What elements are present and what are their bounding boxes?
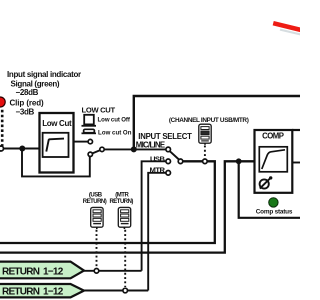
wire: usb return feed [142, 161, 166, 270]
svg-text:LOW CUT: LOW CUT [82, 106, 116, 115]
tag: USB RETURN 1-12 arrow [0, 262, 84, 279]
icon: low cut on switch [84, 129, 95, 132]
svg-text:Low Cut: Low Cut [42, 119, 72, 128]
node: usb return contact [94, 269, 99, 274]
icon: usb return switch [91, 207, 103, 229]
wire: low cut bypass path [22, 149, 90, 177]
wire: comp feed to bus2 [0, 161, 255, 252]
knob: comp amount [260, 179, 269, 188]
block: COMP [255, 130, 293, 193]
svg-text:Signal (green): Signal (green) [11, 79, 60, 88]
node: mic/line contact [166, 147, 171, 152]
tag: MTR RETURN 1-12 arrow [0, 284, 84, 297]
icon: mtr return switch [118, 207, 130, 229]
node: usb contact [166, 159, 171, 164]
wire: pole to bus1 [0, 161, 215, 243]
curve: compressor response [262, 150, 285, 169]
svg-text:(MTR: (MTR [115, 193, 129, 199]
svg-text:RETURN): RETURN) [83, 199, 107, 205]
lever: low cut switch [92, 150, 100, 153]
svg-text:Low cut Off: Low cut Off [98, 117, 131, 124]
wire: low cut pole to mic/line node [104, 148, 168, 150]
dotted link: mtr return switch to contact [124, 230, 126, 287]
lever: input select switch [170, 151, 179, 159]
node: mtr return contact [123, 288, 128, 293]
LED: clip indicator (red) [0, 97, 5, 107]
red annotation arrow shadow [280, 30, 302, 35]
dotted link: channel input switch to contact [204, 146, 206, 159]
wire: channel frame riser and top rail [134, 96, 300, 149]
wire: comp top rail extension [292, 129, 300, 131]
node: channel input contact [203, 159, 208, 164]
svg-text:Comp status: Comp status [256, 209, 293, 216]
svg-text:COMP: COMP [262, 132, 284, 141]
node: low cut bypass contact [88, 152, 92, 156]
svg-text:RETURN 1−12: RETURN 1−12 [2, 287, 64, 298]
curve: high-pass response [46, 139, 64, 152]
wire: mtr return line [84, 290, 148, 292]
junction: mic/line node [131, 146, 137, 152]
svg-text:RETURN 1−12: RETURN 1−12 [2, 267, 64, 278]
svg-text:(USB: (USB [89, 193, 103, 199]
svg-text:(CHANNEL INPUT USB/MTR): (CHANNEL INPUT USB/MTR) [169, 117, 249, 124]
svg-text:−3dB: −3dB [16, 108, 35, 117]
LED: comp status (green) [269, 198, 278, 207]
junction: input split [19, 146, 25, 152]
block: Low Cut [40, 113, 74, 173]
node: channel input contact [0, 146, 4, 151]
svg-text:Input signal indicator: Input signal indicator [7, 70, 81, 79]
wire: mtr return feed [148, 173, 166, 291]
svg-text:Clip (red): Clip (red) [10, 99, 45, 108]
dashed link: clip LED to input wire [1, 110, 4, 146]
icon: channel input switch [199, 124, 211, 145]
node: mtr contact [166, 171, 171, 176]
wire: comp output stub [292, 162, 300, 164]
wire: low cut output [74, 141, 89, 143]
node: input select pole [178, 159, 183, 164]
wire: input to low cut block [4, 148, 40, 150]
svg-text:−28dB: −28dB [16, 88, 39, 97]
dotted link: usb return switch to contact [96, 230, 98, 268]
red annotation arrow tail [273, 23, 302, 30]
node: low cut switch pole [100, 147, 104, 151]
svg-text:RETURN): RETURN) [109, 199, 133, 205]
node: low cut out contact [88, 139, 92, 143]
svg-text:Low cut On: Low cut On [98, 129, 132, 136]
wire: comp bypass to lower rail [239, 161, 300, 218]
svg-text:MIC/LINE: MIC/LINE [136, 141, 165, 150]
icon: low cut off switch [84, 115, 94, 125]
junction: comp bypass node [236, 158, 242, 164]
wire: usb return line [84, 270, 142, 272]
